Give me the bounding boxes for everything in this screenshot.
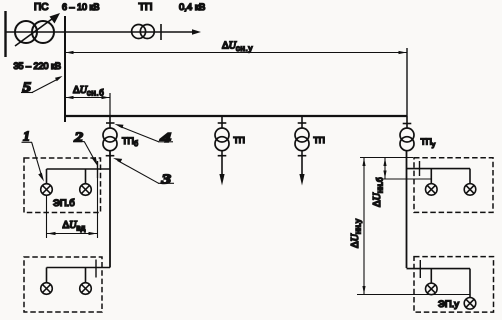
node: service entrance tick (upper left building) <box>97 161 99 178</box>
transformer ТПб <box>103 116 117 156</box>
node: service entrance tick (lower left building) <box>95 260 97 278</box>
node: 6-10 kV busbar of ПС (vertical) <box>64 16 66 122</box>
lamp (ЭП) 2 upper-left <box>80 184 92 196</box>
wire: service line from ТПб feeder into upper building <box>47 168 111 170</box>
lamp (ЭП) lower-right near <box>426 283 438 295</box>
wire: bottom extension of ΔU нн.у to far lamp <box>357 294 470 296</box>
wire: drop to near lamp (lower right) <box>430 269 432 283</box>
svg-text:ЭП.б: ЭП.б <box>53 198 75 209</box>
svg-text:4: 4 <box>159 131 171 146</box>
wire: HV line from supply bar through PS transformer <box>6 31 66 33</box>
label 1 with leader to lamp 1 <box>22 142 42 175</box>
wire: drop to lamp 2 <box>85 169 87 184</box>
node: 0.4 kV bus tick of top ТП <box>160 24 162 40</box>
svg-text:ТП: ТП <box>234 135 245 145</box>
lamp (ЭП) lower-left B <box>80 283 92 295</box>
transformer ТПу <box>400 116 414 151</box>
svg-text:0,4 кВ: 0,4 кВ <box>179 2 205 13</box>
wire: service line into upper-right building <box>407 168 471 170</box>
svg-text:6 – 10 кВ: 6 – 10 кВ <box>62 2 99 12</box>
lamp (ЭП) upper-right near <box>426 184 438 196</box>
transformer ТП (top, two overlapping circles) <box>132 25 146 39</box>
label 3 with leader to ТПб LV tick <box>118 161 175 184</box>
dimension ΔU сн.б (line y=97.5 from x=65 to x=110) <box>65 97 110 99</box>
wire: drop to far lamp (lower right) <box>469 269 471 298</box>
regulation arrow of ПС transformer <box>15 18 54 47</box>
label 4 with leader to ТПб HV tick <box>119 126 173 142</box>
wire: outgoing arrow of middle ТП 1 <box>219 174 224 186</box>
dashed box: building ЭПб (upper left) <box>24 158 101 213</box>
svg-text:1: 1 <box>23 130 30 145</box>
lamp (ЭП) lower-right far <box>464 298 476 310</box>
svg-text:ТП: ТП <box>314 135 325 145</box>
wire: feeder from 6-10kV bus to TП (top branch) <box>65 31 194 33</box>
label 2 with leader to service entrance <box>73 142 95 160</box>
node: HV supply bar (35-220 kV busbar) <box>4 11 6 57</box>
dimension ΔU нн.у / ΔU нн.б top extension line <box>360 157 413 159</box>
transformer ТП (middle 1) <box>215 116 229 174</box>
wire: right end riser (ΔU сн.у extension / ТПу feeder) <box>406 48 408 116</box>
transformer ТП (middle 2) <box>295 116 309 174</box>
wire: service line into lower-left building (corner from ТПб feeder) <box>47 267 111 269</box>
dimension ΔU сн.у (line y=52 from x=65 to x=407) <box>65 52 407 54</box>
wire: main 6-10 kV feeder bus <box>65 115 407 117</box>
wire: drop to lamp 1 <box>46 169 48 184</box>
svg-text:ЭП.у: ЭП.у <box>438 299 459 310</box>
svg-text:35 – 220 кВ: 35 – 220 кВ <box>14 61 61 71</box>
dimension ΔU вд (extension lines) <box>47 178 98 238</box>
dimension ΔU нн.у (vertical line x=364) <box>363 158 365 295</box>
lamp (ЭП) lower-left A <box>41 283 53 295</box>
wire: outgoing arrow of middle ТП 2 <box>299 174 304 186</box>
svg-text:ПС: ПС <box>34 2 48 13</box>
node: service entrance tick (upper right building) <box>419 161 421 176</box>
wire: ТПб 0.4 kV feeder down to buildings <box>109 150 111 268</box>
dimension ΔU нн.б (vertical line x=385) <box>384 158 386 180</box>
svg-text:5: 5 <box>23 80 32 95</box>
wire: service line into lower-right building (corner from ТПу feeder) <box>407 268 471 270</box>
wire: drop to lamp 4 <box>85 268 87 284</box>
wire: lower extension of ΔU нн.б to near lamp drop <box>381 178 431 180</box>
lamp (ЭП) upper-right far <box>464 184 476 196</box>
wire: riser from ΔU сн.б dimension to ТПб <box>109 93 111 116</box>
wire: drop to lamp 3 <box>46 268 48 284</box>
dashed box: building (lower left) <box>24 257 102 312</box>
transformer ПС (substation, two overlapping circles) <box>15 21 37 43</box>
wire: ТПу 0.4 kV feeder down <box>406 150 408 268</box>
label 5 with leader to 6-10 kV bus <box>21 80 57 93</box>
lamp (ЭП) 1 upper-left <box>41 184 53 196</box>
svg-text:ТП: ТП <box>139 1 153 13</box>
dashed box: building ЭПу (lower right) <box>414 257 494 313</box>
svg-text:2: 2 <box>73 130 83 145</box>
wire: drop to far lamp (upper right) <box>469 169 471 184</box>
svg-text:3: 3 <box>160 172 171 187</box>
node: service entrance tick (lower right building) <box>419 260 421 278</box>
wire: outgoing 0.4 kV line arrow <box>192 29 201 35</box>
wire: drop to near lamp (upper right) <box>430 169 432 184</box>
dashed box: building (upper right) <box>414 158 493 213</box>
